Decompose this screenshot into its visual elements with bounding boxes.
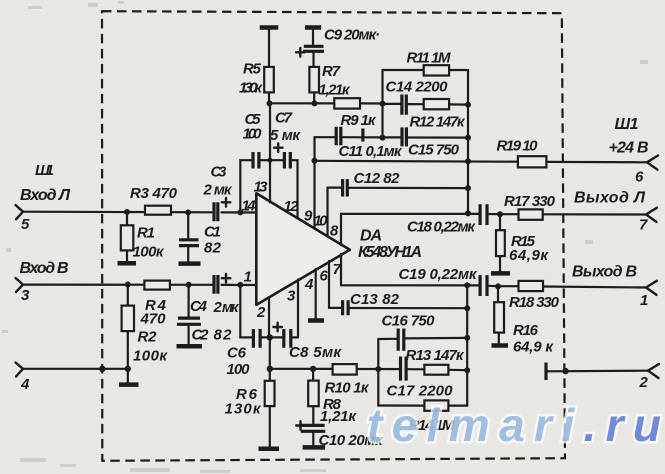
node right bus / C16 xyxy=(464,335,470,341)
node pin9 / +24V wire xyxy=(312,158,318,164)
svg-text:С17 2200: С17 2200 xyxy=(387,383,454,400)
svg-text:470: 470 xyxy=(140,311,167,328)
capacitor C5 100 xyxy=(243,111,263,169)
svg-text:Выход В: Выход В xyxy=(572,264,637,281)
svg-text:R2: R2 xyxy=(138,329,158,346)
svg-text:С7: С7 xyxy=(275,110,293,127)
node right bus / R13 xyxy=(464,367,470,373)
wire y103 R5 to R9 xyxy=(270,102,335,104)
svg-text:DA: DA xyxy=(360,228,382,245)
svg-text:130к: 130к xyxy=(225,401,262,418)
node pin1 / C6 branch xyxy=(237,282,243,288)
capacitor C4 2mk (series, polarized) xyxy=(190,274,240,316)
resistor R13 147k (series with C17) xyxy=(406,347,468,375)
svg-text:С11 0,1мк: С11 0,1мк xyxy=(339,143,403,160)
svg-text:82: 82 xyxy=(214,327,233,344)
node wire2 on border xyxy=(562,368,568,374)
capacitor C8 5mk (polarized) xyxy=(273,323,342,361)
svg-text:R13 147к: R13 147к xyxy=(406,347,465,364)
resistor R5 130k xyxy=(239,30,274,104)
node right bus / C12 wire xyxy=(465,185,471,191)
svg-text:9: 9 xyxy=(304,208,313,225)
svg-text:telmari.ru: telmari.ru xyxy=(367,399,661,451)
ground under R16 xyxy=(492,343,509,348)
svg-text:R5: R5 xyxy=(243,61,262,78)
pin 2 wire xyxy=(268,297,270,337)
ground under pin 4 xyxy=(308,318,324,323)
svg-text:С15 750: С15 750 xyxy=(408,142,460,159)
capacitor C10 20mk (electrolytic) xyxy=(296,421,384,449)
pin 10 wire xyxy=(326,188,328,237)
supply tap bar above R5 xyxy=(260,25,279,30)
svg-text:3: 3 xyxy=(21,287,30,304)
wire C3 to pin 14 xyxy=(222,211,257,213)
op-amp U1 triangle К548УН1А xyxy=(256,193,350,305)
svg-text:14: 14 xyxy=(242,198,257,215)
svg-text:С14 2200: С14 2200 xyxy=(386,79,449,96)
svg-text:R19 10: R19 10 xyxy=(497,138,539,155)
node right bus / C15 xyxy=(465,135,471,141)
ground under R6 xyxy=(259,446,280,451)
svg-text:82: 82 xyxy=(204,240,222,257)
node left bus / C15 row xyxy=(380,135,386,141)
wire C5 to C7 xyxy=(260,159,284,161)
ground under R2 xyxy=(119,382,139,387)
svg-text:10: 10 xyxy=(314,213,329,230)
capacitor C16 750 xyxy=(378,313,467,351)
resistor R6 130k xyxy=(225,337,275,446)
pin 12 wire xyxy=(290,160,297,218)
svg-text:С19 0,22мк: С19 0,22мк xyxy=(399,266,478,283)
wire input L to C3 xyxy=(23,211,212,214)
wire C6 to C8 xyxy=(261,336,284,338)
svg-text:130к: 130к xyxy=(239,80,263,97)
wire input B to C4 xyxy=(23,284,212,286)
svg-text:5 мк: 5 мк xyxy=(270,127,301,144)
svg-text:2 мк: 2 мк xyxy=(203,182,233,199)
ground under C1 xyxy=(179,261,201,266)
svg-text:Ш1: Ш1 xyxy=(615,116,639,133)
svg-text:R17 330: R17 330 xyxy=(504,193,556,210)
svg-text:100к: 100к xyxy=(133,244,165,261)
capacitor C9 20mk (electrolytic) xyxy=(296,27,380,67)
wire R9 to left bus xyxy=(360,102,383,104)
node C5/C7/pin13 xyxy=(267,158,272,163)
capacitor C11 0,1mk (row from pin 9) xyxy=(315,127,403,160)
svg-text:2: 2 xyxy=(639,374,649,391)
capacitor C19 0,22mk xyxy=(399,266,499,296)
capacitor C1 82 xyxy=(179,212,222,261)
svg-text:6: 6 xyxy=(320,268,329,285)
svg-text:2 мк: 2 мк xyxy=(213,299,240,316)
node R1 tap xyxy=(124,209,130,215)
connector Ш1 pin 5 (input L) xyxy=(16,162,72,233)
resistor R12 147k (series with C14) xyxy=(407,99,468,131)
svg-text:R1: R1 xyxy=(137,225,155,242)
node right bus / output wire xyxy=(464,282,470,288)
left bus of top feedback network xyxy=(381,70,383,138)
svg-text:С2: С2 xyxy=(192,327,210,344)
capacitor C6 100 xyxy=(227,329,261,378)
svg-text:2: 2 xyxy=(256,304,266,321)
wire pin 8 to C18 xyxy=(341,213,479,215)
node left bus / R9 xyxy=(380,101,386,107)
connector Ш1 pin 1 output B xyxy=(572,264,657,310)
capacitor C2 82 xyxy=(177,285,232,344)
pin 13 wire xyxy=(269,103,271,202)
node R7 foot xyxy=(312,100,318,106)
wire connector 4 to R2 foot xyxy=(23,368,128,370)
resistor R15 64,9k xyxy=(496,214,549,271)
node C19 / R16 / R18 xyxy=(495,283,501,289)
resistor R11 1M xyxy=(383,50,469,76)
node R5 foot xyxy=(267,100,273,106)
resistor R4 470 xyxy=(140,281,170,328)
resistor R2 100k xyxy=(122,285,169,383)
wire to connector 2 xyxy=(546,370,648,373)
svg-text:R16: R16 xyxy=(513,322,539,339)
resistor R9 1k xyxy=(334,98,377,129)
capacitor C14 2200 xyxy=(383,79,449,115)
connector Ш1 pin 7 output L xyxy=(574,190,657,234)
connector Ш1 pin 3 (input B) xyxy=(16,260,69,304)
svg-text:100: 100 xyxy=(243,126,263,143)
node C1 tap xyxy=(185,209,191,215)
svg-text:100к: 100к xyxy=(133,348,168,365)
node R2 tap xyxy=(125,282,131,288)
resistor R17 330 xyxy=(500,193,646,220)
svg-text:R11 1М: R11 1М xyxy=(407,50,452,67)
wire pin 7 to C19 xyxy=(341,284,479,286)
svg-text:7: 7 xyxy=(639,217,648,234)
svg-text:64,9к: 64,9к xyxy=(509,247,549,264)
svg-text:R9 1к: R9 1к xyxy=(341,112,377,129)
svg-text:1,21к: 1,21к xyxy=(320,408,357,425)
watermark telmari.ru xyxy=(367,399,661,451)
svg-text:6: 6 xyxy=(635,169,644,186)
svg-text:7: 7 xyxy=(333,261,342,278)
wire pin14 node up to C5 row xyxy=(240,160,252,212)
capacitor C13 82 (row from pin 6) xyxy=(329,291,467,315)
svg-text:1: 1 xyxy=(640,292,648,309)
node C2 tap xyxy=(186,282,192,288)
svg-text:R10 1к: R10 1к xyxy=(325,380,370,397)
svg-text:1: 1 xyxy=(244,269,252,286)
svg-text:С4: С4 xyxy=(190,298,208,315)
svg-text:R3 470: R3 470 xyxy=(130,185,178,202)
wire R19 to connector 6 xyxy=(546,161,647,164)
capacitor C12 82 (row from pin 10) xyxy=(328,170,469,197)
supply tap bar above C9 xyxy=(305,25,321,30)
svg-text:С1: С1 xyxy=(204,224,221,241)
node wire4 / R2 xyxy=(125,366,131,372)
svg-text:5: 5 xyxy=(21,216,30,233)
capacitor C17 2200 xyxy=(378,357,453,400)
wire +24V rail from pin 9 to R19 xyxy=(315,160,518,163)
svg-text:С16 750: С16 750 xyxy=(382,313,436,330)
resistor R8 1,21k xyxy=(308,369,357,425)
svg-text:64,9 к: 64,9 к xyxy=(513,339,554,356)
pin 9 wire xyxy=(313,137,315,228)
right bus of bottom feedback network xyxy=(466,285,468,406)
svg-text:100: 100 xyxy=(227,361,251,378)
svg-text:3: 3 xyxy=(287,288,296,305)
resistor R1 100k xyxy=(121,212,165,261)
svg-text:Ш1: Ш1 xyxy=(35,162,54,179)
node pin14 / C5 branch xyxy=(237,209,243,215)
wire R10 to left bus xyxy=(357,368,379,370)
node right bus / pin8 wire xyxy=(465,210,471,216)
terminal bar of connector 2 wire xyxy=(544,363,547,381)
node right bus / +24V wire xyxy=(465,158,471,164)
resistor R19 10 xyxy=(497,138,547,168)
connector Ш1 pin 4 xyxy=(16,363,31,394)
svg-text:С8 5мк: С8 5мк xyxy=(289,344,342,361)
resistor R10 1k xyxy=(325,364,370,396)
svg-text:4: 4 xyxy=(20,376,30,393)
svg-text:С12 82: С12 82 xyxy=(354,170,401,187)
node left bus / C17 row xyxy=(375,366,381,372)
ground under R15 xyxy=(491,271,510,276)
svg-text:С9 20мк·: С9 20мк· xyxy=(324,27,380,44)
resistor R3 470 xyxy=(130,185,178,215)
pin 4 wire xyxy=(315,269,317,318)
right bus of top feedback network xyxy=(467,70,469,213)
svg-text:8: 8 xyxy=(330,223,339,240)
node C18 / R15 / R17 xyxy=(497,211,503,217)
capacitor C7 5mk (polarized) xyxy=(270,110,301,169)
svg-text:С6: С6 xyxy=(227,345,247,362)
svg-text:+24 В: +24 В xyxy=(609,140,649,157)
svg-text:12: 12 xyxy=(284,198,300,215)
resistor R18 330 xyxy=(498,281,646,311)
connector Ш1 pin 2 xyxy=(639,364,660,391)
svg-text:С18 0,22мк: С18 0,22мк xyxy=(407,219,476,236)
wire pin1 node down to C6 row xyxy=(240,285,253,338)
svg-text:R7: R7 xyxy=(322,63,341,80)
wire C4 to pin 1 xyxy=(222,284,257,286)
capacitor C15 750 xyxy=(402,127,468,158)
ground under C2 xyxy=(177,344,203,349)
svg-text:R18 330: R18 330 xyxy=(509,294,560,311)
pin 8 wire xyxy=(340,214,342,245)
node wire4 on border xyxy=(99,366,105,372)
node R6 line / feedback row xyxy=(267,366,273,372)
node right bus / C13 wire xyxy=(464,305,470,311)
pin 3 wire xyxy=(297,280,299,338)
node right bus / R12 xyxy=(465,102,471,108)
dashed border frame of the amplifier block xyxy=(102,11,565,461)
svg-text:4: 4 xyxy=(304,276,314,293)
pin 6 wire xyxy=(328,261,330,308)
svg-text:Выход Л: Выход Л xyxy=(574,190,646,207)
capacitor C3 2mk (series, polarized) xyxy=(203,164,233,222)
svg-text:К548УН1А: К548УН1А xyxy=(358,244,422,261)
node C6/C8/pin2/R6 xyxy=(267,334,273,340)
resistor R7 1,21k xyxy=(309,63,350,103)
svg-text:R12 147к: R12 147к xyxy=(410,114,466,131)
left bus of bottom feedback network xyxy=(377,339,379,406)
svg-text:1,21к: 1,21к xyxy=(319,82,351,99)
svg-text:Вход Л: Вход Л xyxy=(20,187,71,204)
svg-text:Вход В: Вход В xyxy=(20,260,69,277)
svg-text:С3: С3 xyxy=(211,164,228,181)
resistor R14 1M xyxy=(378,400,467,434)
capacitor C18 0,22mk xyxy=(407,204,500,235)
connector Ш1 pin 6 +24V xyxy=(609,116,659,186)
ground under R1 xyxy=(118,261,137,266)
svg-text:13: 13 xyxy=(254,179,269,196)
node R8 tap xyxy=(310,366,316,372)
pin 7 wire xyxy=(340,254,342,285)
resistor R16 64,9k xyxy=(494,286,554,355)
wire feedback row to R10 xyxy=(270,368,333,370)
ground under C10 xyxy=(303,445,326,450)
svg-text:С13 82: С13 82 xyxy=(350,291,400,308)
